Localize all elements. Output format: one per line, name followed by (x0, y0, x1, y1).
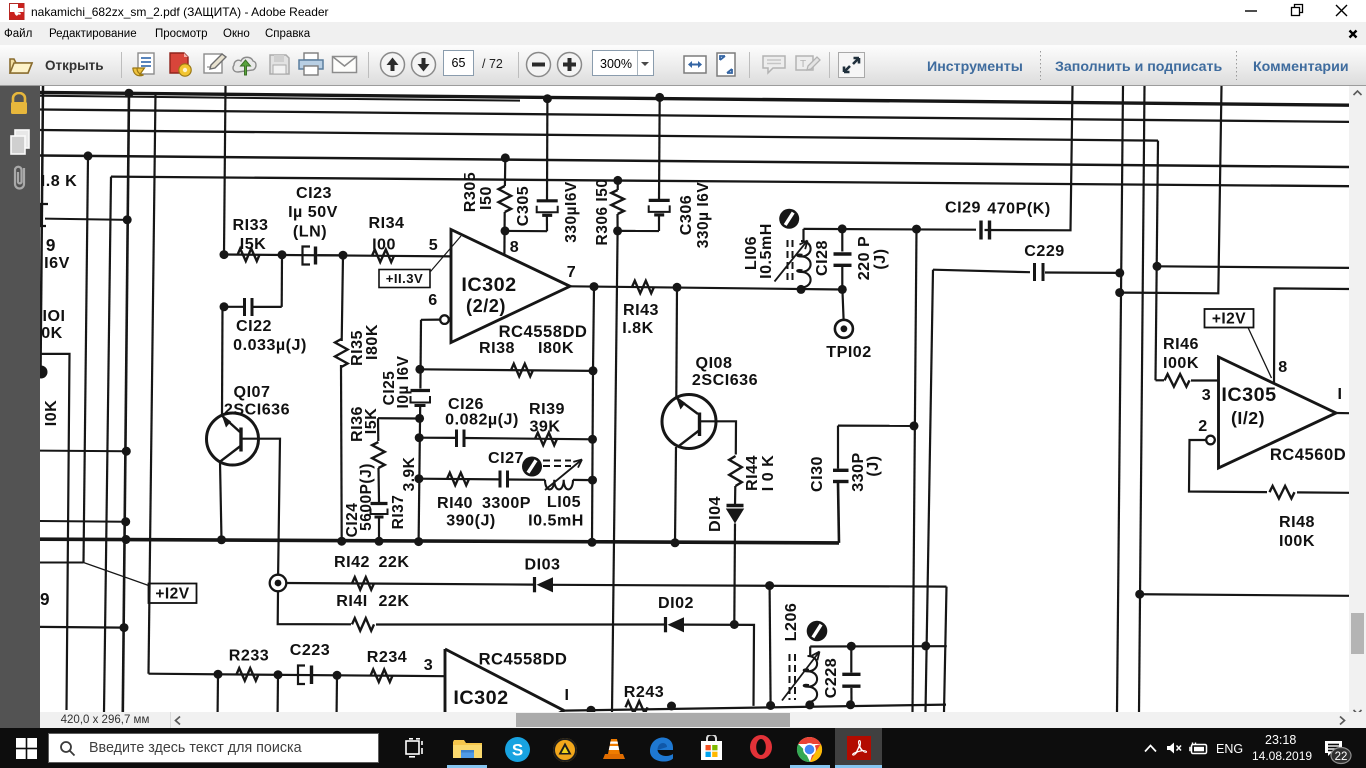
resistor R243 (626, 701, 648, 714)
node C122 left (220, 302, 229, 311)
resistor R134 100 (372, 250, 394, 263)
svg-text:0.082µ(J): 0.082µ(J) (445, 411, 519, 429)
node R138 right (589, 366, 598, 375)
svg-text:I0.5mH: I0.5mH (757, 223, 775, 279)
wire Q107 base right + down to circled junction (243, 439, 281, 575)
resistor R139 39K (535, 433, 557, 446)
svg-text:C228: C228 (822, 658, 840, 698)
wire C130 branch (bus corner up) (838, 483, 839, 543)
wire Q108 emitter to bus (675, 447, 676, 543)
svg-text:I5K: I5K (362, 408, 380, 435)
capacitor C228 (850, 646, 852, 673)
wire +12V horizontal at left (40, 562, 84, 564)
svg-text:RI38: RI38 (479, 339, 515, 357)
note tool (disabled) (794, 54, 821, 76)
wire from left edge to vertical no.3 (bottom) (40, 626, 124, 629)
wire main ground bus (thick) (40, 539, 839, 543)
node R136 tap (415, 414, 424, 423)
svg-text:C223: C223 (290, 641, 330, 659)
svg-text:RI48: RI48 (1279, 513, 1315, 531)
wire C126/R139 row (419, 437, 456, 439)
svg-text:7: 7 (567, 263, 576, 281)
resistor 1.8K (clipped at page edge) (40, 204, 48, 226)
svg-text:22K: 22K (378, 553, 409, 571)
wire R141 row from circled junction (278, 591, 351, 624)
wire from 1.8K resistor to vertical (45, 219, 129, 220)
wire R306 node down (long vertical) (612, 231, 618, 712)
node R133 left (220, 250, 229, 259)
pin 2 input circle (1206, 436, 1215, 445)
svg-text:T: T (800, 59, 806, 70)
wire bus A2 (merging second rail) (40, 96, 520, 101)
svg-text:IC302: IC302 (461, 274, 516, 296)
svg-text:5: 5 (429, 236, 438, 254)
svg-text:8: 8 (510, 238, 519, 256)
svg-text:2: 2 (1198, 417, 1207, 435)
svg-text:(I/2): (I/2) (1231, 408, 1265, 428)
svg-text:330µ I6V: 330µ I6V (695, 182, 712, 249)
wire R138 feedback row (420, 369, 593, 371)
wire D103 net corner down (right) (944, 587, 947, 712)
svg-text:CI29: CI29 (945, 199, 981, 217)
svg-text:I00K: I00K (1279, 532, 1315, 550)
wire IC302 output row (570, 286, 842, 289)
wire C129 right with corner up (985, 86, 1073, 230)
transistor Q107 2SC1636 (207, 413, 259, 465)
node on bus D at left (84, 151, 93, 160)
node after R243 on output row (667, 702, 676, 711)
+12V label box at IC305 (1205, 309, 1254, 328)
capacitor C223 (298, 666, 305, 685)
wire from left edge to vertical no.3 lower (40, 520, 126, 523)
svg-text:+I2V: +I2V (155, 586, 189, 603)
page up button (379, 51, 406, 78)
svg-text:RI4I: RI4I (336, 592, 368, 610)
resistor R306 150 (vertical from bus E) (613, 176, 622, 185)
svg-text:RI46: RI46 (1163, 335, 1199, 353)
node L206 bottom on output row (805, 700, 814, 709)
wire lower output row (564, 705, 946, 711)
capacitor C129 470P(K) (979, 221, 982, 240)
svg-text:5600P(J): 5600P(J) (358, 463, 375, 531)
svg-text:+I2V: +I2V (1212, 311, 1246, 328)
wire vertical +12V net (left) (84, 156, 89, 563)
export icon (130, 51, 156, 78)
svg-text:(LN): (LN) (293, 223, 327, 241)
svg-text:RI42: RI42 (334, 553, 370, 571)
wire vertical left no.3 (long) (123, 92, 129, 713)
node output/R138 feedback (590, 282, 599, 291)
+11.3V test voltage label box (379, 270, 430, 288)
skype (504, 736, 531, 763)
svg-text:39K: 39K (529, 418, 560, 436)
node C229 right on v1120 (1115, 268, 1124, 277)
node C130 wire / right vertical (910, 421, 919, 430)
svg-text:2SCI636: 2SCI636 (224, 401, 290, 419)
resistor R144 10K (vertical) (729, 456, 742, 486)
system tray (1144, 744, 1157, 753)
save icon (disabled) (267, 52, 292, 77)
sign icon (201, 51, 228, 78)
node C124 bottom on bus (375, 537, 384, 546)
svg-text:R243: R243 (624, 683, 664, 701)
svg-text:IC302: IC302 (453, 687, 508, 709)
svg-text:CI22: CI22 (236, 317, 272, 335)
svg-text:DI02: DI02 (658, 594, 694, 612)
node C125-branch on bus (414, 537, 423, 546)
node bus/left vertical no.3 (122, 535, 131, 544)
svg-text:S: S (512, 741, 523, 760)
node v1120 / wire292 (1115, 288, 1124, 297)
svg-text:QI08: QI08 (696, 354, 733, 372)
edge (648, 736, 675, 763)
file explorer (452, 739, 485, 759)
email icon (331, 55, 358, 74)
transistor Q108 2SC1636 (662, 395, 716, 449)
pin 6 input circle of IC302 (440, 315, 449, 324)
wire R305 node to C305 bottom (505, 230, 547, 233)
wire D102 net corner down to output line (684, 625, 754, 706)
wire vertical C122 node to Q107 collector (221, 307, 224, 415)
adobe reader active tile (835, 728, 882, 768)
testpoint TP102 (842, 290, 843, 320)
wire pin 2 feedback with R148 (1189, 440, 1267, 492)
node D102/D104 junction (730, 620, 739, 629)
svg-text:I5K: I5K (240, 235, 267, 253)
svg-text:9: 9 (46, 236, 56, 255)
node Q107 emitter/bus (217, 535, 226, 544)
wire292 to v1218 corner (1120, 86, 1222, 293)
fit page icon (713, 51, 739, 78)
node C223 right / stub down (333, 671, 342, 680)
svg-text:DI03: DI03 (525, 556, 561, 574)
svg-text:DI04: DI04 (706, 496, 724, 532)
node C123/R134/R135 (339, 251, 348, 260)
node L106 bottom on output row (797, 285, 806, 294)
wire C130 top to right vertical (838, 425, 914, 427)
print icon (297, 52, 325, 77)
capacitor C124 5600P(J) (371, 502, 388, 505)
node R306 bottom (613, 226, 622, 235)
node wire451 (122, 447, 131, 456)
page down button (410, 51, 437, 78)
svg-text:22: 22 (1335, 751, 1348, 763)
node C228 bottom on output row (846, 700, 855, 709)
svg-text:9: 9 (40, 590, 50, 609)
wire lower amplifier input row (R233/C223/R234) (147, 673, 149, 675)
node wire627 (120, 623, 129, 632)
wire bus E (111, 177, 1349, 187)
svg-text:Iµ 50V: Iµ 50V (288, 203, 338, 221)
svg-text:RI43: RI43 (623, 301, 659, 319)
svg-text:(J): (J) (864, 455, 882, 476)
svg-text:RI40: RI40 (437, 494, 473, 512)
wire Q107 emitter to bus (220, 462, 222, 540)
node at page edge (clipped) (35, 366, 48, 379)
wire inverting input vertical (C125 branch) (419, 320, 422, 389)
wire vertical feeder to R233 row (from bus A down, corner right) (149, 93, 156, 674)
svg-text:I0.5mH: I0.5mH (528, 512, 584, 530)
capacitor C305 330u16V (546, 99, 549, 201)
node v1157 / wire266 (1153, 262, 1162, 271)
trimmer slot of L206 (807, 621, 828, 642)
wire C306 bottom to R306 node (618, 230, 659, 232)
node R305 bottom / C305 bottom wire (501, 226, 510, 235)
capacitor C127 3300P (499, 471, 502, 488)
open folder icon (8, 52, 34, 78)
svg-text:390(J): 390(J) (446, 512, 496, 530)
svg-text:C229: C229 (1024, 242, 1064, 260)
wire D104 cathode down to D102 net (733, 524, 736, 625)
svg-text:I6V: I6V (44, 254, 70, 272)
testpoint circled junction (via to R142/R141) (270, 575, 287, 592)
node on bus (feedback vertical) (588, 538, 597, 547)
wire vertical C122 right leg (281, 255, 283, 307)
node R233 left / stub down (214, 670, 223, 679)
resistor R142 22K (352, 577, 374, 590)
capacitor C306 330u 16V (658, 97, 661, 200)
svg-text:I 0 K: I 0 K (759, 455, 777, 492)
resistor R143 1.8K (632, 281, 654, 294)
inductor L206 (variable) (809, 647, 811, 657)
op-amp IC305 (1/2) (1219, 357, 1337, 468)
task view icon (405, 738, 426, 758)
node wire521 (121, 517, 130, 526)
node wire219/vertical no.3 (123, 215, 132, 224)
svg-text:I80K: I80K (538, 339, 574, 357)
svg-text:(J): (J) (871, 248, 889, 269)
diode D103 (533, 577, 536, 592)
wire feedback vertical to bus (right side of RC network) (592, 371, 593, 543)
svg-text:L206: L206 (782, 603, 800, 642)
svg-text:LI05: LI05 (547, 493, 581, 511)
capacitor C123 1u 50V (LN) (303, 247, 311, 265)
svg-text:RI39: RI39 (529, 400, 565, 418)
wire bus D (40, 156, 1349, 168)
wire lower-right row (to edge) (1135, 590, 1144, 599)
capacitor C126 0.082u(J) (455, 430, 458, 448)
wire R140/C127/L105 row (419, 478, 500, 481)
opera (748, 734, 774, 760)
svg-text:0.033µ(J): 0.033µ(J) (233, 336, 307, 354)
node L105 row on feedback vertical (588, 476, 597, 485)
vlc (602, 737, 626, 761)
cloud upload icon (231, 53, 258, 77)
vertical scrollbar (1349, 86, 1366, 712)
svg-text:3.9K: 3.9K (401, 456, 418, 491)
node on lower output row (587, 706, 596, 715)
wire R133/C123 row (224, 255, 451, 257)
node top row / right vertical v914 (912, 225, 921, 234)
node bus A / left vertical (125, 89, 134, 98)
svg-text:RC4558DD: RC4558DD (479, 650, 568, 669)
callout from +12V box to pin 8 (1248, 328, 1272, 379)
svg-text:RI34: RI34 (369, 214, 405, 232)
wire vertical left frame (41, 86, 44, 372)
fullscreen icon (838, 52, 865, 78)
node Q108 emitter on bus (671, 538, 680, 547)
wire266 to right edge (1157, 266, 1349, 268)
svg-text:I00: I00 (372, 236, 396, 254)
wire feedback vertical to R138 (593, 287, 594, 371)
wire from left edge to vertical no.3 (40, 450, 126, 453)
svg-text:I0µ I6V: I0µ I6V (395, 355, 412, 408)
svg-text:I: I (1338, 385, 1343, 403)
svg-text:3300P: 3300P (482, 494, 531, 512)
svg-text:I0K: I0K (42, 400, 60, 427)
node C126 tap (415, 433, 424, 442)
node R140 tap (414, 474, 423, 483)
wire L106/C128 top row (804, 228, 977, 231)
create pdf icon (166, 51, 193, 78)
svg-text:R306 I50: R306 I50 (594, 179, 611, 246)
svg-text:I50: I50 (477, 186, 495, 210)
svg-text:IC305: IC305 (1221, 384, 1276, 406)
resistor R146 100K (1156, 379, 1165, 381)
capacitor C128 220P (J) (838, 224, 847, 233)
fit width icon (682, 52, 708, 77)
resistor R140 390(J) (447, 473, 469, 486)
svg-text:CI23: CI23 (296, 184, 332, 202)
resistor R233 (237, 668, 259, 681)
wire long vertical v1120 (1117, 86, 1123, 712)
wire Q108 collector vertical (675, 287, 678, 396)
svg-text:QI07: QI07 (234, 383, 271, 401)
+12V supply label box (149, 584, 197, 604)
resistor R133 15K (238, 249, 260, 262)
capacitor C122 0.033u(J) (224, 306, 244, 308)
resistor R234 (371, 669, 393, 682)
wire Q108 base to R144 branch (701, 421, 736, 454)
left sidebar with navigation icons (0, 86, 40, 728)
node output/Q108 collector (673, 283, 682, 292)
zoom out button (525, 51, 552, 78)
capacitor C125 10u16V (electrolytic) (411, 389, 431, 392)
pointer line from +11.3V box (431, 236, 462, 272)
wire vertical from top to R133 node (224, 86, 226, 255)
trimmer slot of L105 (522, 457, 542, 477)
wire long vertical v1142 (1139, 86, 1145, 712)
diode D102 (664, 617, 667, 632)
resistor R148 100K (1270, 486, 1295, 499)
wire IC305 output (1336, 412, 1349, 414)
svg-text:8: 8 (1278, 358, 1287, 376)
svg-text:3: 3 (1202, 386, 1211, 404)
svg-text:RI33: RI33 (233, 216, 269, 234)
resistor R305 150 (vertical from bus D) (501, 153, 510, 162)
svg-text:CI30: CI30 (808, 456, 826, 492)
node R138 left (415, 365, 424, 374)
wire clamp vertical down to output line (770, 586, 771, 706)
zoom in button (556, 51, 583, 78)
resistor R141 22K (352, 618, 374, 631)
svg-text:I00K: I00K (1163, 354, 1199, 372)
svg-text:0K: 0K (41, 324, 63, 342)
diode D104 (727, 504, 744, 507)
wire vertical left no.2 (104, 177, 111, 712)
svg-text:TPI02: TPI02 (826, 343, 871, 361)
wire bus B (40, 110, 1349, 122)
wire bus C corner down to R146 node (1156, 141, 1159, 381)
svg-text:6: 6 (428, 291, 437, 309)
op-amp IC302 (2/2) top (451, 230, 570, 343)
svg-text:(2/2): (2/2) (466, 296, 506, 316)
wire R142 row (286, 583, 533, 585)
svg-text:IOI: IOI (43, 307, 66, 325)
svg-text:CI27: CI27 (488, 449, 524, 467)
svg-text:I80K: I80K (363, 324, 381, 360)
capacitor C130 330P (J) (833, 480, 849, 483)
svg-text:I.8 K: I.8 K (41, 172, 78, 190)
wire C229 left corner down (long vertical) (926, 270, 934, 712)
resistor R136 15K (vertical) with C124 (378, 417, 420, 419)
svg-text:RI37: RI37 (390, 495, 407, 530)
svg-text:CI28: CI28 (813, 240, 831, 276)
aimp (552, 737, 578, 763)
op-amp IC302 lower half (444, 649, 447, 712)
comment bubble (disabled) (761, 54, 787, 76)
trimmer slot of L106 (779, 209, 799, 229)
svg-text:2SCI636: 2SCI636 (692, 371, 758, 389)
wire right vertical v914 (913, 229, 917, 712)
wire bus A (top supply rail, thick) (40, 93, 1349, 106)
svg-text:C306: C306 (677, 195, 695, 235)
svg-text:R233: R233 (229, 647, 269, 665)
svg-text:I: I (565, 686, 570, 704)
microsoft store (698, 735, 725, 761)
node R133/C123/C122 (278, 250, 287, 259)
svg-text:22K: 22K (378, 592, 409, 610)
wire pin6 to feedback node (421, 319, 440, 321)
node L206 row / right vertical (921, 641, 930, 650)
svg-text:I.8K: I.8K (622, 319, 654, 337)
node C228 top (847, 642, 856, 651)
resistor R135 180K (vertical) (342, 255, 343, 341)
svg-text:R234: R234 (367, 648, 407, 666)
svg-text:+II.3V: +II.3V (386, 271, 424, 286)
wire L206 top row (810, 645, 947, 647)
horizontal scrollbar / status row (40, 712, 1349, 728)
inductor L105 10.5mH (variable) (543, 460, 571, 462)
callout line to +12V label (84, 563, 151, 587)
svg-text:C305: C305 (514, 186, 532, 226)
svg-text:3: 3 (424, 656, 433, 674)
wire stub at left with corner down (vertical no.1b) (40, 354, 70, 710)
wire pin 8 supply (corner right) (1274, 288, 1349, 383)
node C126/R139 row on feedback vertical (588, 435, 597, 444)
chrome (796, 736, 823, 763)
node C223 left / stub down (274, 670, 283, 679)
resistor R138 180K (511, 364, 533, 377)
svg-text:RC4560D: RC4560D (1270, 445, 1346, 464)
svg-text:330µI6V: 330µI6V (563, 181, 580, 243)
wire bus C (turns down at right) (40, 130, 1158, 141)
node D103 net / clamp vertical (765, 581, 774, 590)
node R135 bottom on bus (337, 537, 346, 546)
node clamp vertical on output row (766, 701, 775, 710)
svg-text:470P(K): 470P(K) (987, 200, 1050, 218)
inductor L106 10.5mH (variable) (802, 229, 804, 241)
